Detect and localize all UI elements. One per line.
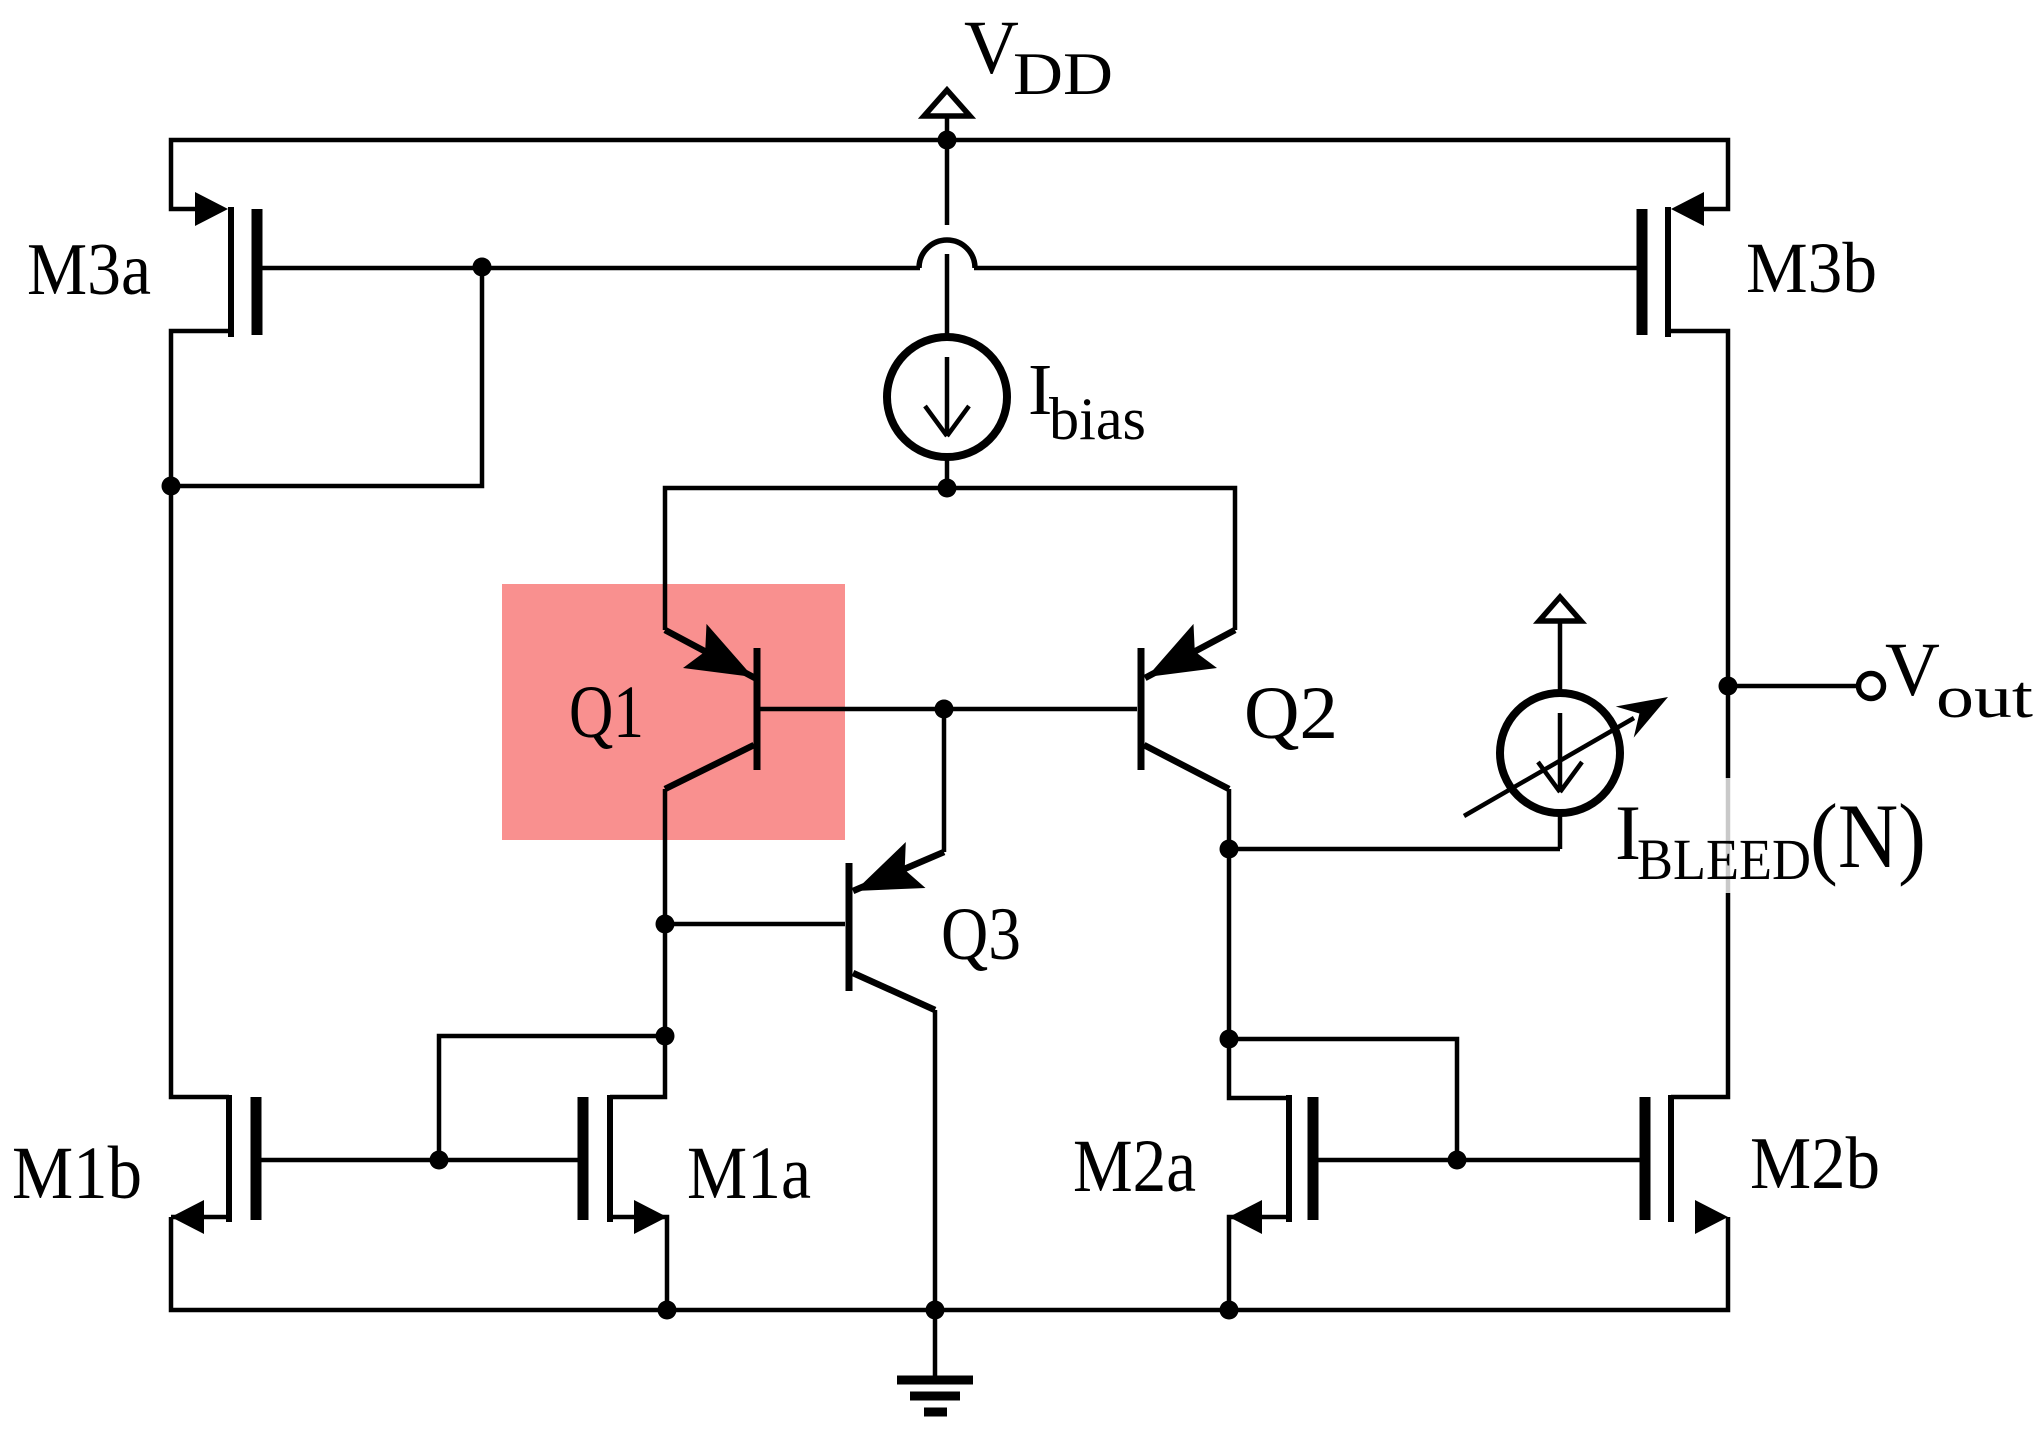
svg-text:DD: DD [1013, 41, 1113, 107]
transistor Q1 emitter arrow [683, 624, 753, 677]
transistor M2b channel [1668, 1095, 1674, 1222]
wire: stub below hop to Ibias [945, 254, 950, 336]
transistor Q1 (PNP) base bar [754, 648, 761, 770]
wire: emitter rail Q1-Q2 [665, 488, 1235, 630]
wire: M3a diode connection (gate node down to drain rail) [171, 267, 482, 486]
transistor Q2 collector diagonal [1144, 745, 1229, 789]
transistor M3a (PMOS) channel [228, 207, 234, 337]
VDD supply arrow (open triangle) [924, 90, 970, 116]
transistor Q3 emitter arrow [855, 842, 926, 891]
wire: M2a source jog down to bottom rail [1229, 1217, 1289, 1310]
svg-text:BLEED: BLEED [1637, 827, 1811, 892]
wire: Q2 collector down to M2a drain node [1227, 789, 1232, 1039]
ground [897, 1310, 973, 1412]
IBLEED supply arrow (open triangle) [1539, 597, 1581, 621]
svg-text:V: V [964, 6, 1019, 90]
wire: Q1-Q2 base line [760, 707, 1137, 712]
transistor M3a gate bar [252, 209, 263, 335]
transistor M3b gate bar [1637, 209, 1648, 335]
current source IBLEED circle [1500, 693, 1620, 813]
svg-text:M2a: M2a [1073, 1125, 1196, 1208]
svg-text:(N): (N) [1810, 785, 1926, 887]
node M2 gates [1448, 1151, 1467, 1170]
transistor Q2 emitter arrow [1147, 624, 1217, 677]
transistor M1b (NMOS) channel [226, 1095, 232, 1222]
transistor M1b gate bar [251, 1097, 262, 1220]
node Q3 base tap [656, 915, 675, 934]
svg-text:Q2: Q2 [1244, 672, 1338, 755]
transistor Q1 collector diagonal [665, 745, 754, 789]
transistor M3b source arrow [1671, 192, 1704, 226]
wire: Vout tap [1728, 684, 1857, 689]
wire: M1a diode connection (gate node up to drain node) [439, 1036, 665, 1160]
transistor Q3 emitter diagonal [853, 852, 944, 891]
transistor Q2 (PNP) base bar [1138, 648, 1145, 770]
node ground tap [926, 1301, 945, 1320]
transistor M3b (PMOS) channel [1665, 207, 1671, 337]
node Ibias output [938, 479, 957, 498]
wire: right rail segment faded behind label [1726, 778, 1731, 893]
wire: M1a source jog down to bottom rail [610, 1217, 667, 1310]
transistor M1a (NMOS) gate bar [578, 1097, 589, 1220]
node M1a drain [656, 1027, 675, 1046]
transistor M1b source wire and arrow [171, 1215, 229, 1220]
node M2a drain [1220, 1030, 1239, 1049]
transistor Q1 emitter diagonal [665, 630, 755, 678]
wire: hop arc [919, 240, 975, 268]
red highlight box around Q1 [502, 584, 845, 840]
svg-text:M3b: M3b [1746, 228, 1877, 308]
wire: right rail (M3b drain to Vout node) [1668, 331, 1728, 778]
node M1 gates [430, 1151, 449, 1170]
wire: Q1 collector down to M1a drain node [663, 789, 668, 1036]
wire: M2a-M2b gate line [1318, 1158, 1640, 1163]
Vout terminal open circle [1859, 674, 1884, 699]
wire: bleed tap from Q2 collector node [1229, 847, 1560, 852]
svg-text:M2b: M2b [1750, 1123, 1880, 1205]
transistor Q3 collector diagonal [853, 973, 935, 1010]
node M2a source on bottom rail [1220, 1301, 1239, 1320]
transistor M2a gate bar [1308, 1097, 1319, 1220]
wire: M2a diode connection (drain node to gate node) [1229, 1039, 1457, 1160]
wire: VDD top rail with left/right drops [171, 140, 1728, 209]
transistor Q2 emitter diagonal [1145, 630, 1235, 678]
transistor M2a (NMOS) channel [1286, 1095, 1292, 1222]
svg-text:bias: bias [1049, 386, 1146, 452]
IBLEED variable arrowhead [1616, 697, 1668, 738]
wire: IBLEED source bottom stub [1558, 814, 1563, 849]
Ibias arrow shaft [925, 357, 969, 436]
transistor M1a source arrow [634, 1200, 667, 1234]
current source Ibias circle [887, 337, 1007, 457]
wire: M1a drain jog [610, 1036, 665, 1097]
wire: base node down to Q3 emitter [942, 709, 947, 852]
wire: Ibias bottom stub [945, 458, 950, 488]
IBLEED variable diagonal [1464, 718, 1634, 816]
transistor M2a source arrow [1229, 1200, 1262, 1234]
svg-text:Q1: Q1 [569, 671, 644, 754]
node M3a gate-drain tie [473, 258, 492, 277]
transistor M2b source arrow [1695, 1200, 1728, 1234]
wire: Q3 collector down to bottom rail [933, 1010, 938, 1310]
svg-text:M1a: M1a [687, 1132, 811, 1215]
wire: right rail (below label to M2b drain) [1671, 893, 1728, 1097]
node bleed tap [1220, 840, 1239, 859]
transistor Q3 (PNP) base bar [846, 863, 853, 991]
wire: IBLEED source top stub [1558, 621, 1563, 692]
transistor M1a channel [607, 1095, 613, 1222]
transistor M2b (NMOS) gate bar [1640, 1097, 1651, 1220]
IBLEED arrow shaft [1538, 713, 1582, 792]
svg-text:Q3: Q3 [941, 893, 1021, 976]
node VDD rail tap [938, 131, 957, 150]
node Q1-Q2 base [935, 700, 954, 719]
svg-text:M3a: M3a [27, 229, 151, 311]
wire: M2a drain jog [1229, 1039, 1289, 1098]
wire: bottom rail with left/right rises [171, 1217, 1728, 1310]
node M3a drain on left rail [162, 477, 181, 496]
wire: VDD stub down to hop [945, 117, 950, 225]
wire: M1b-M1a gate line [261, 1158, 578, 1163]
node Vout on right rail [1719, 677, 1738, 696]
svg-text:M1b: M1b [12, 1132, 142, 1215]
transistor M3a source arrow [195, 192, 228, 226]
wire: Q3 base line [665, 922, 845, 927]
svg-text:out: out [1936, 664, 2033, 730]
wire: gate line M3a-M3b with hop over Ibias stub [262, 266, 1638, 271]
node M1a source on bottom rail [658, 1301, 677, 1320]
wire: left rail (M3a drain down to M1b drain) [171, 331, 231, 1097]
svg-text:V: V [1885, 628, 1940, 712]
